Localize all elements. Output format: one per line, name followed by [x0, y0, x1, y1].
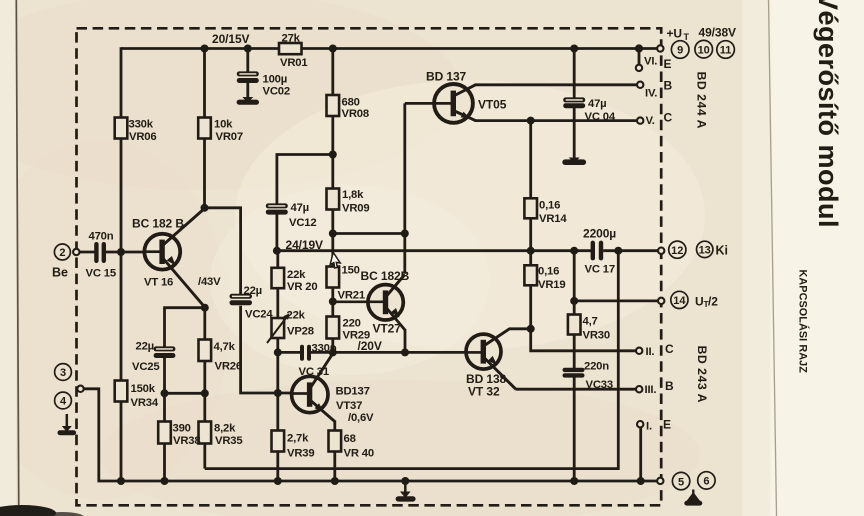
- svg-text:0,16: 0,16: [539, 200, 560, 212]
- svg-text:390: 390: [173, 423, 191, 435]
- wire VT32 emitter line to pin III: [516, 388, 637, 391]
- svg-text:VR01: VR01: [280, 57, 307, 69]
- svg-text:IV.: IV.: [645, 88, 657, 100]
- wire feedback line to output: [205, 251, 619, 469]
- svg-text:20/15V: 20/15V: [212, 32, 250, 46]
- svg-text:VR35: VR35: [215, 435, 242, 447]
- wire bias line to VT32 base: [333, 351, 467, 354]
- wire VC31 row: [278, 351, 333, 354]
- svg-text:VR34: VR34: [131, 397, 159, 409]
- wire top supply rail left segment: [121, 47, 279, 50]
- wire jog VR08-VC12: [277, 155, 333, 204]
- node rail at VC12: [273, 247, 281, 255]
- pin circle 10: [695, 40, 713, 58]
- pin circle 12: [669, 241, 686, 258]
- svg-text:E: E: [663, 418, 671, 432]
- wire input base line: [79, 251, 154, 254]
- wire VT37 emitter column to VR40: [333, 421, 336, 482]
- svg-text:/43V: /43V: [198, 276, 221, 288]
- svg-text:24/19V: 24/19V: [286, 238, 324, 252]
- svg-text:III.: III.: [645, 384, 657, 396]
- capacitor VC31 330p: [300, 345, 311, 361]
- svg-text:I.: I.: [646, 421, 652, 433]
- transistor VT37 BD137: [292, 354, 335, 422]
- svg-text:14: 14: [673, 295, 686, 307]
- svg-text:VC 15: VC 15: [86, 268, 116, 280]
- capacitor VC17 2200µ: [591, 241, 604, 261]
- node top rail at VR08: [329, 45, 337, 53]
- svg-text:VC02: VC02: [263, 86, 290, 98]
- node VT05 emitter: [527, 117, 535, 125]
- svg-text:VR30: VR30: [583, 330, 610, 342]
- wire VT32 collector corner to pin II line: [531, 329, 637, 351]
- wire VC04 stem: [573, 49, 576, 159]
- svg-text:VR 20: VR 20: [287, 281, 317, 293]
- capacitor VC02 100µ: [237, 71, 259, 83]
- svg-text:VR26: VR26: [215, 361, 242, 373]
- node UT/2: [570, 297, 578, 305]
- terminal open circle 12 Ki: [658, 248, 664, 254]
- transistor VT16 BC182B: [144, 209, 205, 308]
- wire VT37 base: [278, 392, 301, 395]
- wire VC02 stem: [246, 49, 249, 98]
- resistor VR09 1,8k: [327, 189, 340, 210]
- wire VR14/VR19 column: [529, 121, 532, 329]
- node VT16 emitter: [201, 304, 209, 312]
- svg-text:Be: Be: [52, 266, 68, 280]
- node VR09 bottom: [329, 230, 337, 238]
- node top rail at VC04: [570, 45, 578, 53]
- ground at VC04: [562, 158, 586, 166]
- wire 24/19V rail: [277, 249, 658, 252]
- ground at terminal 4: [58, 414, 77, 435]
- svg-text:4: 4: [60, 396, 67, 408]
- pin circle 14: [671, 291, 688, 308]
- wire VT27 emitter column: [404, 329, 407, 352]
- node VT16 base / VR06: [117, 248, 125, 256]
- svg-text:VC12: VC12: [289, 217, 316, 229]
- svg-text:B: B: [664, 79, 673, 93]
- node top rail at VI stub: [635, 44, 643, 52]
- svg-text:BD137: BD137: [336, 386, 370, 398]
- node ground rail VR38: [161, 477, 169, 485]
- node ground rail pin I: [637, 477, 645, 485]
- svg-text:VR08: VR08: [342, 108, 369, 120]
- svg-text:/0,6V: /0,6V: [348, 412, 374, 424]
- node top rail at VC02: [244, 45, 252, 53]
- svg-text:VR19: VR19: [538, 279, 565, 291]
- resistor VR14 0,16: [524, 198, 537, 218]
- svg-text:VC 17: VC 17: [585, 264, 615, 276]
- dashed module border: [77, 28, 662, 505]
- svg-text:68: 68: [344, 433, 356, 445]
- resistor VR38 390: [158, 422, 171, 444]
- wire VR08/VR09/VR21/VR29 column: [331, 49, 334, 354]
- terminal open circle +UT: [657, 45, 663, 51]
- wire VT05 collector line to pin B: [475, 83, 638, 86]
- wire ground rail: [81, 389, 658, 481]
- svg-text:47µ: 47µ: [588, 98, 606, 110]
- svg-text:150: 150: [342, 265, 360, 277]
- pin circle 6: [698, 472, 715, 489]
- svg-text:13: 13: [699, 245, 711, 257]
- svg-text:6: 6: [703, 476, 709, 488]
- resistor VR08 680: [327, 95, 340, 116]
- svg-text:VT27: VT27: [373, 322, 402, 336]
- pin circle 5: [672, 472, 689, 489]
- svg-text:VR29: VR29: [343, 330, 370, 342]
- wire VR26/VR35 column: [203, 308, 206, 469]
- node VC31 left: [274, 348, 282, 356]
- svg-text:8,2k: 8,2k: [214, 423, 236, 435]
- svg-text:VC25: VC25: [132, 361, 159, 373]
- terminal open circle input 3/4: [77, 386, 83, 392]
- capacitor VC12 47µ: [266, 203, 288, 214]
- wire VT16 emitter tap to VC25: [165, 308, 205, 481]
- svg-text:10: 10: [698, 44, 710, 56]
- resistor VR40 68: [329, 431, 342, 452]
- svg-text:II.: II.: [646, 346, 655, 358]
- node rail at VR14: [527, 247, 535, 255]
- svg-text:BD 137: BD 137: [426, 70, 467, 84]
- wire VR38-VR35 top row: [165, 392, 205, 395]
- node VT05 base column bottom: [401, 230, 409, 238]
- svg-text:Ki: Ki: [716, 244, 729, 258]
- svg-text:VT37: VT37: [336, 400, 362, 412]
- trimmer VP28 22k: [272, 318, 285, 338]
- svg-text:330k: 330k: [129, 119, 154, 131]
- resistor VR30 4,7: [568, 315, 581, 335]
- node VT27 emitter on bias line: [401, 348, 409, 356]
- svg-text:VR09: VR09: [342, 203, 369, 215]
- terminal open circle 5/6: [657, 478, 663, 484]
- svg-text:C: C: [665, 342, 674, 356]
- svg-text:9: 9: [677, 45, 683, 57]
- svg-text:VC 31: VC 31: [299, 366, 329, 378]
- svg-text:12: 12: [671, 245, 683, 257]
- wire VR20/VP28/VR39 column: [276, 251, 279, 481]
- wire VC12 to 24/19V rail: [275, 214, 278, 251]
- svg-text:22µ: 22µ: [136, 341, 154, 353]
- node VR35 top: [201, 389, 209, 397]
- svg-text:E: E: [664, 57, 672, 71]
- svg-text:3: 3: [60, 367, 66, 379]
- svg-text:VT05: VT05: [478, 98, 507, 112]
- svg-text:1,8k: 1,8k: [342, 189, 364, 201]
- terminal open circle II: [636, 348, 642, 354]
- pin circle 3: [55, 364, 72, 381]
- svg-text:47µ: 47µ: [291, 202, 309, 214]
- terminal open circle 14 UT/2: [658, 298, 664, 304]
- svg-text:C: C: [664, 111, 673, 125]
- svg-text:BD 243 A: BD 243 A: [695, 346, 709, 404]
- pin circle 13: [697, 241, 713, 257]
- svg-text:220: 220: [343, 318, 361, 330]
- terminal open circle III: [636, 386, 642, 392]
- wire VT05 base column: [403, 103, 406, 273]
- svg-text:4,7k: 4,7k: [214, 341, 236, 353]
- node VR08-VR09 junction: [329, 151, 337, 159]
- svg-text:220n: 220n: [584, 361, 609, 373]
- svg-text:T: T: [684, 32, 690, 42]
- node rail at feedback column: [614, 247, 622, 255]
- resistor VR26 4,7k: [199, 340, 212, 362]
- pin circle 2: [54, 244, 70, 260]
- capacitor VC25 22µ: [154, 346, 176, 358]
- resistor VR34 150k: [115, 381, 128, 402]
- svg-text:27k: 27k: [282, 32, 301, 44]
- wire VT05 emitter line to pin C: [475, 119, 638, 122]
- svg-text:VR21: VR21: [338, 290, 365, 302]
- svg-text:11: 11: [720, 45, 732, 57]
- terminal open circle I: [637, 421, 643, 427]
- svg-text:22k: 22k: [287, 269, 306, 281]
- svg-text:680: 680: [342, 97, 360, 109]
- capacitor VC04 47µ: [563, 97, 585, 108]
- node VC25 bottom: [161, 389, 169, 397]
- ground at terminal 6: [684, 490, 702, 506]
- node VT27 base: [329, 298, 337, 306]
- node VT37 base: [274, 389, 282, 397]
- svg-text:B: B: [665, 379, 674, 393]
- svg-text:VI.: VI.: [644, 56, 657, 68]
- resistor VR07 10k: [198, 118, 211, 139]
- svg-text:2: 2: [59, 247, 65, 259]
- pin circle 9: [671, 41, 689, 59]
- terminal open circle VI: [636, 65, 642, 71]
- terminal open circle IV: [637, 82, 643, 88]
- svg-text:22k: 22k: [287, 310, 306, 322]
- node ground rail VC33: [570, 477, 578, 485]
- bottom-left dark smudge: [0, 505, 56, 516]
- node VR29 bottom VC31: [329, 348, 337, 356]
- svg-text:BC 182B: BC 182B: [361, 269, 410, 283]
- resistor VR21 150: [327, 267, 340, 288]
- svg-text:150k: 150k: [131, 383, 156, 395]
- svg-text:V.: V.: [646, 115, 655, 127]
- node ground rail VR34: [117, 477, 125, 485]
- svg-text:VT 16: VT 16: [144, 277, 173, 289]
- svg-text:VC 04: VC 04: [585, 111, 616, 123]
- node top rail at VR07: [201, 45, 209, 53]
- svg-text:/2: /2: [708, 295, 718, 309]
- svg-text:VR07: VR07: [216, 131, 243, 143]
- terminal open circle input 2: [73, 249, 79, 255]
- wire top supply rail right segment: [302, 47, 659, 50]
- resistor VR01 27k: [279, 43, 302, 54]
- resistor VR19 0,16: [524, 265, 537, 285]
- svg-text:22µ: 22µ: [244, 285, 262, 297]
- svg-text:49/38V: 49/38V: [699, 26, 737, 40]
- svg-text:U: U: [695, 295, 704, 309]
- svg-text:470n: 470n: [89, 231, 114, 243]
- svg-text:VC33: VC33: [586, 379, 613, 391]
- svg-text:VR06: VR06: [129, 131, 156, 143]
- wire UT/2 output line: [574, 299, 658, 302]
- wire VR06/VR34 column: [120, 47, 123, 481]
- svg-text:2,7k: 2,7k: [287, 433, 309, 445]
- svg-text:KAPCSOLÁSI RAJZ: KAPCSOLÁSI RAJZ: [797, 270, 810, 374]
- wire node row VR09 to VT05 base column: [333, 232, 405, 235]
- transistor VT27 BC182B: [333, 275, 405, 331]
- mouse cursor artifact: [330, 252, 343, 269]
- wire pin I to ground rail: [639, 427, 642, 481]
- left page fold line: [16, 0, 19, 516]
- svg-text:VT 32: VT 32: [468, 385, 500, 399]
- resistor VR39 2,7k: [272, 431, 285, 452]
- svg-text:BC 182 B: BC 182 B: [132, 217, 184, 231]
- node rail at VR30 column: [570, 247, 578, 255]
- svg-text:VP28: VP28: [287, 326, 314, 338]
- wire VI terminal stub: [638, 49, 641, 65]
- svg-text:VR38: VR38: [173, 435, 200, 447]
- node VT32 collector: [527, 325, 535, 333]
- right white sidebar: [770, 0, 864, 516]
- resistor VR20 22k: [272, 268, 285, 288]
- svg-text:Végerősítő modul: Végerősítő modul: [813, 0, 843, 228]
- svg-text:VR39: VR39: [287, 448, 314, 460]
- resistor VR06 330k: [115, 118, 128, 139]
- transistor VT05 BD137: [434, 84, 477, 123]
- resistor VR29 220: [327, 317, 340, 339]
- svg-text:2200µ: 2200µ: [583, 227, 616, 241]
- svg-text:BD 244 A: BD 244 A: [695, 72, 709, 130]
- wire VC24 branch: [205, 208, 278, 393]
- svg-text:VR 40: VR 40: [344, 448, 374, 460]
- pin circle 11: [717, 41, 735, 59]
- wire VT05 base horizontal: [405, 102, 445, 105]
- wire VR30/VC33 column: [573, 251, 576, 481]
- capacitor VC24 22µ: [230, 294, 253, 305]
- capacitor VC15 470n: [94, 242, 106, 263]
- right page fold line: [769, 0, 777, 516]
- svg-text:100µ: 100µ: [263, 73, 288, 85]
- svg-text:+U: +U: [667, 27, 682, 41]
- pin circle 4: [55, 392, 72, 409]
- node VT16 collector: [201, 204, 209, 212]
- wire VR07 column: [203, 49, 206, 208]
- trimmer VP28 arrow: [267, 313, 290, 343]
- capacitor VC33 220n: [563, 368, 585, 378]
- transistor VT32 BD138: [466, 329, 531, 389]
- ground at VC02: [237, 97, 259, 105]
- node ground rail VR39: [274, 477, 282, 485]
- node ground rail symbol: [401, 477, 409, 485]
- svg-text:VC24: VC24: [245, 309, 273, 321]
- svg-text:330p: 330p: [312, 343, 337, 355]
- node ground rail VR40: [331, 477, 339, 485]
- terminal open circle V: [637, 117, 643, 123]
- svg-text:VR14: VR14: [539, 213, 567, 225]
- svg-text:10k: 10k: [214, 119, 233, 131]
- ground at bottom rail: [396, 481, 416, 502]
- svg-text:4,7: 4,7: [583, 316, 598, 328]
- svg-text:5: 5: [678, 476, 684, 488]
- svg-text:0,16: 0,16: [538, 266, 559, 278]
- resistor VR35 8,2k: [199, 422, 212, 444]
